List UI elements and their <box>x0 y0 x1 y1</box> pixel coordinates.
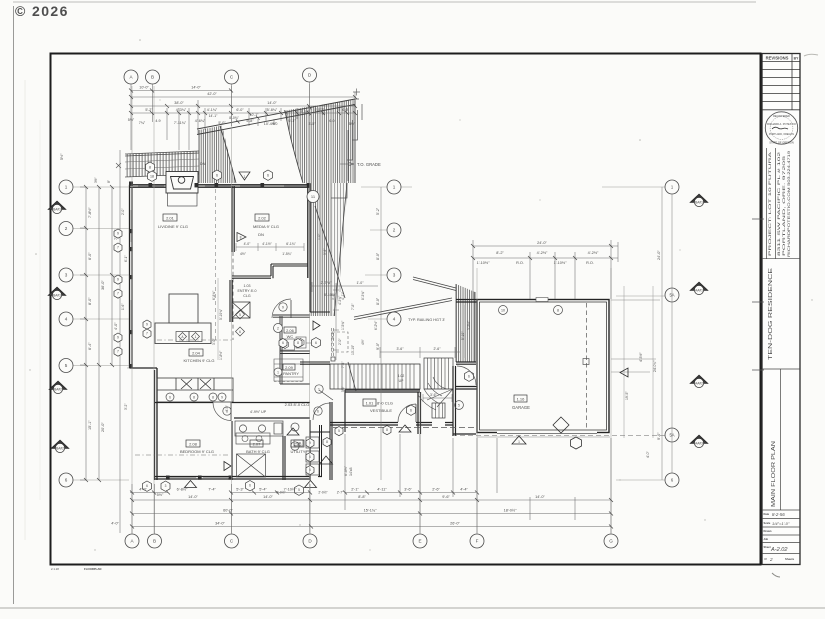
utility label <box>291 440 306 454</box>
svg-text:9: 9 <box>117 278 119 282</box>
svg-text:5: 5 <box>65 363 68 368</box>
pantry label <box>283 364 299 376</box>
svg-text:2.01: 2.01 <box>166 215 175 220</box>
entry closet x-box <box>232 302 250 318</box>
svg-text:6: 6 <box>317 409 319 413</box>
svg-text:1: 1 <box>518 440 520 444</box>
svg-text:2'-7 ½": 2'-7 ½" <box>321 281 333 285</box>
svg-text:4.9: 4.9 <box>155 119 160 123</box>
bubble 2 left <box>59 222 73 236</box>
svg-text:BA#2: BA#2 <box>56 447 64 451</box>
svg-text:8: 8 <box>193 395 195 399</box>
wc closet fixtures column <box>306 437 319 475</box>
dim cluster above stairs <box>310 282 460 358</box>
wall jamb squares west wall <box>129 229 133 368</box>
svg-text:T.O. GRADE: T.O. GRADE <box>357 162 381 167</box>
svg-text:AA#2: AA#2 <box>695 382 703 386</box>
svg-text:PORTLAND, ORE. 97205: PORTLAND, ORE. 97205 <box>782 156 786 256</box>
fixture hexagons <box>279 339 391 475</box>
bubble 6 right <box>665 473 679 487</box>
extension verticals bottom <box>132 434 611 534</box>
svg-text:5'-2": 5'-2" <box>145 108 153 112</box>
svg-text:Job: Job <box>764 537 769 541</box>
kitchen label <box>184 349 215 363</box>
svg-text:18'-0½": 18'-0½" <box>504 509 517 513</box>
bubble 2 mid <box>387 223 401 237</box>
svg-text:Sheet: Sheet <box>764 545 771 549</box>
svg-text:5'-4": 5'-4" <box>259 488 267 492</box>
hall walls <box>155 403 310 419</box>
top dim row 1 <box>131 90 232 92</box>
hall marker circles <box>223 407 322 450</box>
svg-text:9: 9 <box>146 323 148 327</box>
revision rows <box>762 54 800 110</box>
nabla 8 triangle at divider <box>237 233 246 242</box>
wall diamond tags <box>236 310 245 336</box>
svg-text:6'-0": 6'-0" <box>88 252 92 260</box>
svg-text:4'-0": 4'-0" <box>111 522 119 526</box>
architect stamp <box>765 112 797 145</box>
frame edge tick marks right <box>752 219 764 370</box>
svg-text:8: 8 <box>240 236 242 240</box>
svg-text:2'-0": 2'-0" <box>338 338 342 345</box>
triangle 3 left <box>49 381 67 394</box>
svg-text:60'-0": 60'-0" <box>223 509 233 513</box>
kitchen island <box>155 323 211 344</box>
entry corridor dims <box>423 305 465 402</box>
svg-text:36'-0": 36'-0" <box>101 280 105 290</box>
bubble B top <box>146 70 160 84</box>
bubble A bottom <box>125 534 139 548</box>
svg-text:Sheets: Sheets <box>785 557 795 561</box>
svg-text:6: 6 <box>65 478 68 483</box>
svg-text:8: 8 <box>297 341 299 345</box>
svg-text:9: 9 <box>117 232 119 236</box>
svg-text:DN: DN <box>200 162 206 166</box>
grid line F vertical <box>476 268 478 533</box>
svg-text:14'-0": 14'-0" <box>191 86 201 90</box>
vestibule label <box>363 399 393 413</box>
svg-text:ENTRY 8'-0: ENTRY 8'-0 <box>238 289 257 293</box>
grid line G vertical <box>610 268 612 533</box>
svg-text:9: 9 <box>221 395 223 399</box>
shower box <box>237 454 266 477</box>
svg-text:1'-6": 1'-6" <box>121 304 125 310</box>
entry south wall <box>300 362 330 364</box>
svg-text:6'-0": 6'-0" <box>236 108 244 112</box>
svg-text:9: 9 <box>117 336 119 340</box>
bottom page scan edge <box>0 607 825 609</box>
svg-text:14'-0": 14'-0" <box>535 495 545 499</box>
hall north wall <box>310 312 330 364</box>
svg-text:BY: BY <box>794 57 799 61</box>
porch dashed edge line <box>333 427 477 429</box>
bubble C top <box>225 70 239 84</box>
roof ridge double line <box>197 99 355 135</box>
svg-text:8: 8 <box>386 428 388 432</box>
svg-text:4'-0": 4'-0" <box>114 322 118 330</box>
svg-text:3½": 3½" <box>94 177 98 183</box>
svg-text:13'-10": 13'-10" <box>351 344 355 355</box>
svg-text:G: G <box>609 539 613 544</box>
pencil squiggle top right <box>804 54 818 56</box>
svg-text:2: 2 <box>769 557 773 562</box>
svg-text:2.08: 2.08 <box>189 441 198 446</box>
svg-text:24'-0": 24'-0" <box>657 250 661 260</box>
svg-text:6'-2½": 6'-2½" <box>374 320 378 330</box>
svg-text:4'-9": 4'-9" <box>225 406 229 412</box>
svg-text:7'-11¾": 7'-11¾" <box>174 121 187 125</box>
top wall living/media <box>130 185 311 187</box>
svg-text:Drawn: Drawn <box>764 529 772 533</box>
bubble 11 <box>307 191 319 203</box>
svg-text:3'-6": 3'-6" <box>404 488 412 492</box>
svg-text:8: 8 <box>212 395 214 399</box>
grid line C vertical <box>231 86 233 533</box>
roof hatch descending column right of media room <box>310 183 347 316</box>
svg-text:7'-8": 7'-8" <box>351 303 355 310</box>
svg-text:FLOORPLAN: FLOORPLAN <box>84 567 101 571</box>
svg-text:2: 2 <box>393 228 396 233</box>
svg-text:R.O.: R.O. <box>516 261 524 265</box>
svg-text:3'-5½": 3'-5½" <box>467 320 471 330</box>
svg-text:AA#1: AA#1 <box>695 289 703 293</box>
hip curve east <box>285 111 303 184</box>
svg-text:14'-0": 14'-0" <box>267 101 277 105</box>
svg-text:AA#3: AA#3 <box>695 442 703 446</box>
svg-text:1'-8½": 1'-8½" <box>219 350 223 360</box>
svg-text:7: 7 <box>146 332 148 336</box>
svg-text:2'-1": 2'-1" <box>351 488 359 492</box>
grid line D vertical <box>309 84 311 533</box>
svg-text:6'-0½": 6'-0½" <box>344 465 348 476</box>
wc fixtures <box>281 337 307 350</box>
svg-text:1: 1 <box>277 370 279 374</box>
svg-text:6'-1¾": 6'-1¾" <box>286 242 296 246</box>
svg-text:6'-4": 6'-4" <box>88 342 92 350</box>
svg-text:1'-5¾": 1'-5¾" <box>282 252 292 256</box>
entry west wall <box>230 280 232 322</box>
svg-text:9'-0": 9'-0" <box>657 432 661 440</box>
svg-text:LIV/DINE 9' CLG: LIV/DINE 9' CLG <box>158 224 188 229</box>
svg-text:5'-8¾": 5'-8¾" <box>267 108 278 112</box>
railing diagonal to garage <box>354 298 452 320</box>
svg-text:15'-1": 15'-1" <box>88 420 92 430</box>
bubble 3 left <box>59 268 73 282</box>
svg-text:MAIN FLOOR PLAN: MAIN FLOOR PLAN <box>771 441 777 507</box>
window lines left wall <box>130 210 132 332</box>
bubble 6 left <box>59 473 73 487</box>
svg-text:2'-6": 2'-6" <box>432 488 440 492</box>
svg-text:7'-8½": 7'-8½" <box>88 207 92 218</box>
svg-text:6.0: 6.0 <box>329 119 334 123</box>
top dim row 2 <box>131 96 356 98</box>
svg-text:10'-0": 10'-0" <box>139 86 149 90</box>
svg-text:4½": 4½" <box>361 338 365 345</box>
bottom dim row 3 <box>132 513 611 515</box>
bubble 4 mid <box>387 312 401 326</box>
svg-text:4'-0": 4'-0" <box>139 488 147 492</box>
bubble A top <box>124 70 138 84</box>
bottom dim row 2 <box>132 499 611 501</box>
svg-text:DN: DN <box>258 232 264 237</box>
svg-text:4'-11": 4'-11" <box>341 291 345 300</box>
wall jamb squares top wall <box>129 182 311 188</box>
grid row 6 horizontal <box>73 479 666 481</box>
triangle 3 right <box>690 375 708 388</box>
svg-text:5: 5 <box>458 403 460 407</box>
svg-text:TYP. RAILING HGT 3': TYP. RAILING HGT 3' <box>408 318 445 322</box>
svg-text:1.16: 1.16 <box>517 396 526 401</box>
svg-text:4'-6¾": 4'-6¾" <box>195 119 206 123</box>
left exterior wall <box>130 185 133 368</box>
svg-text:1: 1 <box>65 185 68 190</box>
small corridor stair <box>432 403 445 418</box>
svg-text:PROJECT: LOT 10 FUTURA: PROJECT: LOT 10 FUTURA <box>768 151 772 256</box>
svg-text:1/4"=1'-0": 1/4"=1'-0" <box>772 521 790 526</box>
svg-text:7'-4": 7'-4" <box>208 488 216 492</box>
svg-text:3'-5": 3'-5" <box>308 122 316 126</box>
svg-text:5: 5 <box>298 488 300 492</box>
garage bottom triangle <box>512 436 526 444</box>
walkway hatch left of garage <box>413 277 475 362</box>
svg-text:1: 1 <box>318 387 320 391</box>
svg-text:24'-0¾": 24'-0¾" <box>653 360 657 372</box>
svg-text:VESTIBULE: VESTIBULE <box>370 408 392 413</box>
svg-text:R.O.: R.O. <box>586 261 594 265</box>
svg-text:2.02: 2.02 <box>258 215 267 220</box>
grid row 5 horizontal <box>73 365 129 367</box>
svg-text:5½": 5½" <box>157 493 164 497</box>
triangle 4 left <box>51 440 69 453</box>
svg-text:18: 18 <box>150 175 154 179</box>
window lines south wall <box>168 477 228 479</box>
main drawing frame <box>51 54 761 565</box>
dashed closet under stair <box>332 332 348 352</box>
scan speckles <box>29 39 812 551</box>
svg-text:3: 3 <box>65 273 68 278</box>
bubble F bottom <box>470 534 484 548</box>
living room label <box>158 214 188 229</box>
svg-text:5½": 5½" <box>341 385 345 392</box>
media interior dim row <box>236 243 304 251</box>
bath vanity row <box>235 421 299 436</box>
bedroom label <box>180 440 214 454</box>
svg-text:6: 6 <box>410 409 412 413</box>
bubble B bottom <box>148 534 162 548</box>
svg-text:UP: UP <box>399 379 404 383</box>
svg-text:5½": 5½" <box>349 122 356 126</box>
svg-text:24'-0": 24'-0" <box>537 241 547 245</box>
svg-text:© 2026: © 2026 <box>15 3 69 19</box>
main stair flight <box>330 362 420 391</box>
svg-text:2'-0": 2'-0" <box>121 209 125 215</box>
top dim row 4 <box>131 112 356 114</box>
svg-text:5: 5 <box>338 429 340 433</box>
svg-text:4'-2½": 4'-2½" <box>537 251 548 255</box>
svg-text:6: 6 <box>169 395 171 399</box>
svg-text:7: 7 <box>117 350 119 354</box>
roof hatch dense zone east (curved left edge) <box>285 100 355 184</box>
hall to garage walls <box>453 362 477 436</box>
roof deck hatch band upper-left <box>116 151 199 177</box>
wall jamb squares south wall <box>166 476 232 480</box>
grid row 4 horizontal <box>73 318 387 320</box>
bubble 4 left <box>59 312 73 326</box>
triangle 1 right <box>690 194 708 207</box>
svg-text:1.03: 1.03 <box>244 284 251 288</box>
svg-text:4'-0": 4'-0" <box>646 450 650 458</box>
svg-text:E: E <box>418 539 421 544</box>
garage west wing wall <box>456 300 477 303</box>
svg-text:6'-8¾": 6'-8¾" <box>212 290 216 300</box>
svg-text:8'-0": 8'-0" <box>376 297 380 305</box>
svg-text:20'-0": 20'-0" <box>101 422 105 432</box>
svg-text:F: F <box>476 539 479 544</box>
svg-text:2'-0½": 2'-0½" <box>318 491 328 495</box>
svg-text:B: B <box>153 539 156 544</box>
svg-text:PANTRY: PANTRY <box>283 371 299 376</box>
kitchen south-west wall step <box>130 368 158 480</box>
svg-text:3'-6": 3'-6" <box>430 393 438 397</box>
small square door pivot <box>331 357 335 361</box>
svg-text:3'-6": 3'-6" <box>397 347 405 351</box>
slant dim texts <box>209 110 310 126</box>
bubble 3 mid <box>387 268 401 282</box>
bubble 1 left <box>59 180 73 194</box>
vestibule hexagon marker <box>407 405 416 415</box>
svg-text:3: 3 <box>165 484 167 488</box>
triangle 4 right <box>690 435 708 448</box>
svg-text:STATE OF OREGON: STATE OF OREGON <box>769 141 794 145</box>
svg-text:4'-0": 4'-0" <box>244 242 252 246</box>
grid row 1 horizontal <box>73 186 665 188</box>
bath vanity <box>236 433 270 444</box>
svg-text:5'-10": 5'-10" <box>301 110 310 114</box>
dim string right of media room <box>333 283 339 360</box>
main roof hatch dense zone west <box>197 99 355 183</box>
svg-text:1: 1 <box>244 175 246 179</box>
left margin scan line <box>13 6 15 604</box>
svg-text:7'-3": 7'-3" <box>341 361 345 368</box>
svg-text:3: 3 <box>393 273 396 278</box>
svg-text:BA#2: BA#2 <box>54 388 62 392</box>
vestibule walls <box>330 390 453 434</box>
top dim texts <box>128 86 356 127</box>
svg-text:WC: WC <box>287 334 294 339</box>
svg-text:14'-0": 14'-0" <box>188 495 198 499</box>
left wall hexagon markers <box>114 229 151 356</box>
svg-text:5'-3": 5'-3" <box>236 488 244 492</box>
mid grid dimension line <box>380 187 382 480</box>
svg-text:BATH 9' CLG: BATH 9' CLG <box>246 449 270 454</box>
svg-text:19'-5": 19'-5" <box>625 391 629 400</box>
svg-text:1: 1 <box>393 185 396 190</box>
small triangles south <box>185 425 412 488</box>
rotated dims right of garage <box>625 352 657 458</box>
svg-text:8: 8 <box>326 440 328 444</box>
svg-text:1'-10½": 1'-10½" <box>554 261 567 265</box>
svg-text:10'-1": 10'-1" <box>250 113 259 117</box>
svg-text:1: 1 <box>195 335 197 339</box>
media room south wall + notch <box>232 264 308 278</box>
bath label <box>246 440 270 454</box>
svg-text:3'-0": 3'-0" <box>212 338 216 345</box>
small room door arc right of utility <box>313 403 330 420</box>
rotated dim text strings entry area <box>317 233 378 392</box>
svg-text:8'-0¾": 8'-0¾" <box>229 116 239 120</box>
svg-text:BA#1: BA#1 <box>695 201 703 205</box>
svg-text:BEDROOM 9' CLG: BEDROOM 9' CLG <box>180 449 214 454</box>
svg-text:Scale: Scale <box>764 521 771 525</box>
bubble D top <box>303 68 317 82</box>
bedroom door arc <box>213 403 231 421</box>
svg-text:14'x8: 14'x8 <box>349 468 353 476</box>
svg-text:4'-9½" UP: 4'-9½" UP <box>250 410 267 414</box>
pantry shelves <box>274 359 303 381</box>
svg-text:10: 10 <box>501 309 505 313</box>
dim ticks top <box>129 89 357 116</box>
living room ceiling dashed line <box>215 189 217 340</box>
svg-text:9'-0": 9'-0" <box>376 342 380 350</box>
grid line A vertical <box>131 86 133 533</box>
bubble C bottom <box>225 534 239 548</box>
window lines top wall <box>138 185 306 187</box>
counter appliance circles <box>166 393 226 401</box>
svg-text:8'-2": 8'-2" <box>496 251 504 255</box>
svg-text:9'-6": 9'-6" <box>442 495 450 499</box>
svg-text:2.10: 2.10 <box>294 441 303 446</box>
svg-text:8: 8 <box>149 166 151 170</box>
dashed line below garage wall <box>452 435 668 437</box>
svg-text:8-2-56: 8-2-56 <box>772 512 785 517</box>
svg-text:4'-1½": 4'-1½" <box>262 242 272 246</box>
bottom data rows <box>762 519 800 554</box>
svg-text:15'-1¾": 15'-1¾" <box>364 509 377 513</box>
deck band hexagons <box>146 162 273 181</box>
svg-text:5'-5": 5'-5" <box>314 108 322 112</box>
svg-text:6: 6 <box>267 174 269 178</box>
pencil squiggle below title block <box>772 573 780 577</box>
svg-text:4'-2½": 4'-2½" <box>588 251 599 255</box>
triangle 2 left <box>48 287 66 300</box>
bedroom/bath south wall <box>155 477 323 480</box>
grid row 3 horizontal <box>73 275 665 296</box>
garage door opening <box>497 431 597 434</box>
svg-text:1'-0": 1'-0" <box>357 281 365 285</box>
svg-text:10'-4½": 10'-4½" <box>264 122 277 126</box>
svg-text:8'-3¾": 8'-3¾" <box>361 290 365 300</box>
svg-text:4: 4 <box>65 317 68 322</box>
living/media divider wall <box>232 186 234 252</box>
bath walls <box>231 421 233 480</box>
rotated porch dims <box>225 406 353 476</box>
bubble 5A right <box>665 288 679 302</box>
svg-text:Of: Of <box>764 557 767 561</box>
svg-text:4'-3¾": 4'-3¾" <box>176 108 187 112</box>
svg-text:TEN-DOG RESIDENCE: TEN-DOG RESIDENCE <box>768 267 774 360</box>
triangle 1 left <box>48 201 66 214</box>
svg-text:6'-8½": 6'-8½" <box>177 488 188 492</box>
garage window top <box>536 298 548 302</box>
bubble E bottom <box>413 534 427 548</box>
kitchen counter row <box>157 378 233 402</box>
bubble 1 mid <box>387 180 401 194</box>
nabla marker on top wall <box>239 172 250 180</box>
media room label <box>253 214 279 237</box>
svg-text:6: 6 <box>249 484 251 488</box>
island diamond tags <box>176 332 202 342</box>
